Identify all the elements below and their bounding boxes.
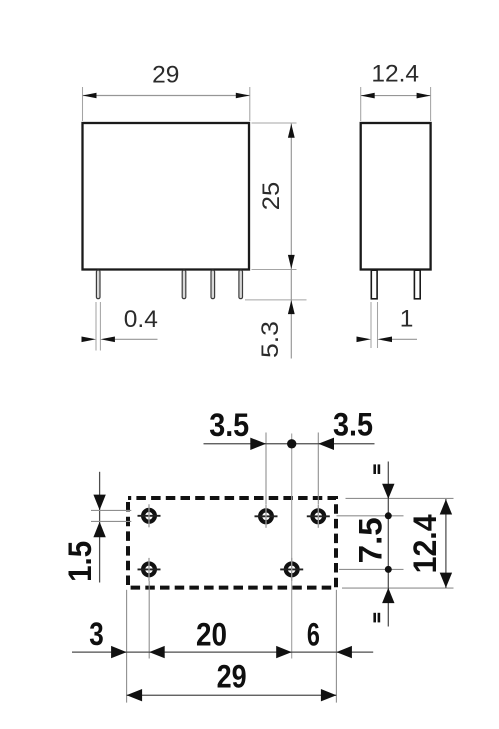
side view pin 1 [371, 270, 377, 299]
hole bottom left [138, 558, 161, 581]
dimension 0.4 pin width arrows [82, 337, 115, 343]
dimension 1.5 tangent extension lines [91, 510, 131, 521]
extension line top hole row right [337, 515, 404, 517]
dimension 29 width extension lines [83, 87, 250, 121]
hole top left [138, 504, 161, 527]
svg-text:1.5: 1.5 [61, 541, 98, 582]
svg-text:1: 1 [400, 305, 414, 332]
svg-text:3.5: 3.5 [209, 406, 249, 443]
dimension 29 footprint line [127, 694, 337, 696]
dimension 29 width line [83, 95, 250, 97]
dimension 12.4 depth arrows [361, 93, 431, 99]
dimension 12.4 footprint arrows [440, 499, 452, 588]
svg-text:3.5: 3.5 [333, 406, 373, 443]
side view relay body outline [361, 123, 431, 270]
front view pin 2 [182, 270, 186, 298]
dimension 3.5 3.5 line [204, 443, 375, 445]
svg-text:29: 29 [217, 658, 247, 695]
hole top right [307, 505, 330, 528]
hole top middle [255, 505, 278, 528]
dimension 12.4 depth extension lines [361, 87, 431, 121]
dimension 7.5 arrows [382, 484, 394, 603]
equal mark upper [373, 464, 380, 474]
front view pin 3 [211, 270, 215, 298]
extension line footprint left edge bottom [126, 590, 128, 703]
origin dot node [287, 439, 296, 448]
dimension 5.3 pin length extension line [245, 299, 307, 301]
svg-text:12.4: 12.4 [406, 514, 443, 574]
dimension 25 height extension lines [252, 123, 297, 270]
extension line footprint right edge bottom [335, 590, 337, 703]
front view pin 1 [96, 270, 100, 298]
extension line left hole column bottom [148, 581, 150, 659]
equal mark lower [373, 613, 380, 623]
svg-text:0.4: 0.4 [124, 306, 158, 333]
dimension 1 pin thickness leader line [392, 338, 417, 340]
dimension 29 width arrows [83, 93, 250, 99]
front view pin 4 [239, 270, 243, 298]
dimension 7.5 row pitch line [387, 462, 389, 627]
dimension 6 arrow [336, 646, 352, 658]
svg-text:12.4: 12.4 [371, 61, 419, 88]
centerline through origin dot and bottom middle hole [291, 434, 293, 659]
svg-text:25: 25 [258, 182, 285, 211]
dimension 12.4 footprint line [445, 499, 447, 588]
front view relay body outline [83, 123, 250, 270]
extension line bottom hole row right [339, 568, 404, 570]
side view pin 2 [414, 270, 420, 299]
extension line footprint top edge right [346, 497, 454, 499]
dimension 12.4 depth line [361, 95, 431, 97]
dimension 0.4 pin width extension lines [96, 302, 100, 351]
dimension 1.5 hole diameter line [99, 472, 101, 583]
dimension 20 right arrow [276, 646, 292, 658]
dimension 7.5 node dots [385, 512, 392, 519]
dimension 3.5 left arrow [250, 438, 266, 450]
dimension 3 arrow [111, 646, 127, 658]
dimension 25 height arrows [288, 124, 295, 269]
dimension 5.3 pin length arrow [288, 300, 295, 314]
dimension 3 20 6 line [72, 651, 373, 653]
extension line top middle hole [265, 433, 267, 505]
dimension 1.5 arrows [93, 495, 105, 538]
extension line footprint bottom edge right [342, 587, 454, 589]
dimension 1 pin thickness extension lines [371, 302, 378, 348]
dimension 1 pin thickness arrows [357, 337, 393, 343]
svg-text:7.5: 7.5 [352, 517, 389, 563]
dimension 5.3 pin length line [290, 270, 292, 359]
dimension 29 footprint arrows [127, 689, 337, 701]
dimension 25 height line [290, 124, 292, 270]
bottom view footprint dashed outline [128, 498, 336, 588]
svg-text:29: 29 [152, 61, 179, 88]
svg-text:6: 6 [307, 615, 320, 652]
svg-text:3: 3 [89, 615, 104, 652]
svg-text:20: 20 [196, 616, 227, 653]
extension line top right hole [317, 433, 319, 505]
dimension 20 left arrow [149, 646, 165, 658]
hole bottom middle [280, 558, 303, 581]
dimension 3.5 right arrow [318, 438, 334, 450]
svg-text:5.3: 5.3 [257, 321, 284, 358]
dimension 0.4 pin width leader line [115, 338, 158, 340]
